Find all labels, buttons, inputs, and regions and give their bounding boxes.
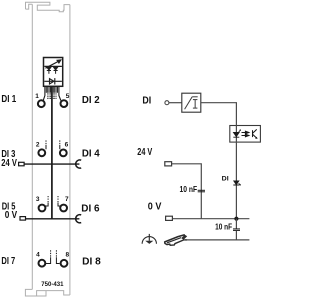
- 24V wire: [172, 164, 202, 219]
- svg-text:7: 7: [65, 196, 69, 203]
- internal wire terminal 6: [59, 140, 61, 149]
- svg-text:1: 1: [35, 93, 39, 100]
- svg-text:DI 4: DI 4: [82, 149, 100, 160]
- DI input terminal: [165, 101, 169, 105]
- terminal 4: [39, 260, 46, 267]
- status LED 2: [54, 67, 58, 74]
- filter symbol: [185, 97, 198, 109]
- internal wire terminal 4: [46, 250, 51, 263]
- optocoupler arrows: [242, 131, 249, 137]
- 0V field rail: [26, 218, 80, 220]
- svg-text:0 V: 0 V: [5, 210, 18, 221]
- earth rail wire: [185, 239, 249, 241]
- LED arrow: [45, 60, 60, 68]
- svg-text:8: 8: [66, 251, 70, 258]
- diode D1: [44, 78, 62, 84]
- svg-text:DI 1: DI 1: [1, 94, 16, 105]
- terminal 3: [39, 205, 46, 212]
- wire to terminal 1: [43, 87, 45, 101]
- optocoupler box: [230, 126, 261, 143]
- optocoupler LED: [233, 129, 241, 137]
- LED rail: [44, 65, 62, 67]
- terminal 7: [60, 205, 67, 212]
- terminal 2: [38, 149, 45, 156]
- 0V wire: [173, 218, 250, 220]
- internal bus ribbon: [46, 87, 57, 100]
- 24V field rail: [24, 163, 79, 165]
- status LED 1: [47, 67, 51, 74]
- terminal 5: [61, 100, 68, 107]
- svg-text:24 V: 24 V: [1, 158, 17, 169]
- svg-text:6: 6: [65, 141, 69, 148]
- DI wire vertical: [235, 125, 237, 218]
- power jumper contact 0V: [76, 215, 82, 223]
- terminal 1: [38, 100, 45, 107]
- terminal 8: [61, 260, 68, 267]
- svg-text:750-431: 750-431: [41, 281, 64, 288]
- svg-text:24 V: 24 V: [137, 147, 152, 158]
- wire to terminal 5: [59, 87, 61, 101]
- svg-text:4: 4: [36, 251, 40, 258]
- optocoupler phototransistor: [253, 129, 258, 139]
- 24V connector: [19, 162, 25, 166]
- svg-text:10 nF: 10 nF: [215, 222, 232, 232]
- svg-text:DI: DI: [142, 96, 151, 107]
- wire terminal to filter: [169, 102, 182, 104]
- capacitor C2 10nF: [233, 229, 240, 231]
- terminal 6: [60, 150, 67, 157]
- status LED DI: [233, 181, 241, 186]
- svg-text:DI 8: DI 8: [82, 256, 101, 267]
- svg-text:DI 2: DI 2: [82, 95, 100, 106]
- functional earth symbol: [142, 234, 156, 244]
- wire filter to optocoupler: [201, 103, 237, 126]
- DIN rail symbol: [165, 235, 188, 246]
- 24V connector (schematic): [165, 162, 172, 166]
- svg-text:DI 6: DI 6: [81, 204, 100, 215]
- input filter box: [182, 93, 201, 112]
- internal wire terminal 7: [58, 196, 60, 206]
- 0V connector (schematic): [166, 216, 173, 220]
- internal wire terminal 3: [45, 196, 48, 206]
- svg-text:DI 7: DI 7: [1, 256, 15, 267]
- svg-text:5: 5: [66, 93, 70, 100]
- 0V connector: [20, 217, 26, 221]
- svg-text:0 V: 0 V: [148, 202, 162, 213]
- svg-text:DI: DI: [222, 176, 229, 183]
- bus wire (0V internal): [51, 87, 53, 219]
- power jumper contact 24V: [76, 160, 82, 168]
- wire junction to C2: [235, 219, 237, 229]
- svg-text:3: 3: [36, 196, 40, 203]
- capacitor C1 10nF: [198, 190, 205, 192]
- module outline: [25, 2, 70, 296]
- svg-text:10 nF: 10 nF: [180, 184, 198, 194]
- junction: [234, 217, 238, 221]
- internal wire terminal 2: [45, 140, 47, 149]
- svg-text:2: 2: [36, 141, 40, 148]
- electronics box U1: [44, 58, 63, 87]
- wire C2 to earth rail: [235, 231, 237, 240]
- internal wire terminal 8: [56, 250, 59, 263]
